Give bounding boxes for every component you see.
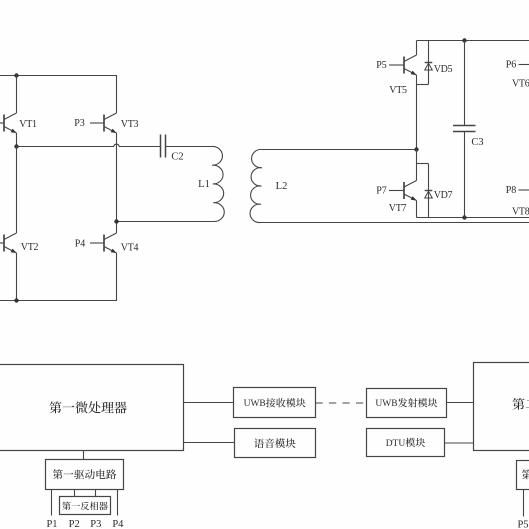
wire mid node to C2 with hop over right leg <box>17 144 161 146</box>
block second microprocessor <box>474 363 529 451</box>
wire DTU to second microprocessor <box>445 442 474 444</box>
svg-text:C2: C2 <box>171 151 183 162</box>
block UWB transmit module <box>367 389 447 418</box>
svg-text:VT8: VT8 <box>512 207 529 218</box>
inductor L1 primary coil <box>117 146 225 221</box>
block UWB receive module <box>234 388 316 418</box>
svg-text:P3: P3 <box>74 118 85 129</box>
wire UWB wireless link dashed <box>316 402 367 404</box>
wire top rail right bridge <box>417 40 529 42</box>
transistor VT4 <box>90 222 117 301</box>
wire driver pin P4 <box>117 490 119 516</box>
svg-text:C3: C3 <box>471 137 483 148</box>
wire bottom rail left bridge <box>0 300 117 302</box>
svg-text:P5: P5 <box>376 60 387 71</box>
svg-text:P7: P7 <box>376 186 387 197</box>
transistor VT1 <box>0 76 17 147</box>
junction top rail / VT1 collector <box>14 73 18 77</box>
svg-text:VT5: VT5 <box>389 85 407 96</box>
wire C2 to L1 <box>166 146 212 148</box>
svg-text:VT3: VT3 <box>121 119 139 130</box>
svg-text:UWB: UWB <box>244 399 266 409</box>
wire bottom rail right bridge <box>417 217 529 219</box>
diode VD5 <box>425 41 433 85</box>
wire P8 base lead <box>519 189 529 191</box>
diode VD7 <box>425 164 433 218</box>
wire UWB transmit to second microprocessor <box>447 402 474 404</box>
wire top rail left bridge <box>0 75 117 77</box>
junction mid node left leg <box>14 144 18 148</box>
svg-text:VD7: VD7 <box>434 190 453 201</box>
wire microprocessor to driver <box>83 451 85 460</box>
wire P6 base lead <box>519 64 529 66</box>
svg-text:P4: P4 <box>112 519 124 529</box>
transistor VT7 <box>389 150 429 218</box>
wire microprocessor to UWB receive <box>184 402 234 404</box>
svg-text:VT7: VT7 <box>389 203 407 214</box>
svg-text:VT1: VT1 <box>19 119 37 130</box>
svg-text:VT2: VT2 <box>21 242 39 253</box>
wire driver to inverter left <box>74 490 76 498</box>
transistor VT5 <box>389 41 429 85</box>
svg-text:P2: P2 <box>69 519 80 529</box>
svg-text:P4: P4 <box>75 239 86 250</box>
block DTU module <box>367 429 445 457</box>
junction L1 return / VT4 collector <box>114 219 118 223</box>
transistor VT3 <box>90 76 117 222</box>
svg-text:VT6: VT6 <box>512 79 529 90</box>
wire driver to inverter right <box>95 490 97 498</box>
junction mid node right bridge <box>414 147 418 151</box>
svg-text:L2: L2 <box>276 181 288 192</box>
svg-text:P1: P1 <box>46 519 57 529</box>
wire microprocessor to voice module <box>184 442 235 444</box>
svg-text:UWB: UWB <box>375 399 397 409</box>
wire VT5 emitter to mid node <box>416 85 418 150</box>
svg-text:P3: P3 <box>90 519 101 529</box>
inductor L2 secondary coil <box>250 149 529 222</box>
block first drive circuit <box>46 460 124 490</box>
block voice module <box>235 429 316 458</box>
wire second driver pin P5 <box>523 490 525 517</box>
svg-text:P5: P5 <box>517 519 528 529</box>
svg-text:P6: P6 <box>506 60 517 71</box>
junction bottom rail / VT2 emitter <box>14 298 18 302</box>
wire driver pin P1 <box>51 490 53 516</box>
svg-text:DTU: DTU <box>386 439 406 449</box>
capacitor C2 <box>161 135 166 158</box>
svg-text:VT4: VT4 <box>121 243 139 254</box>
block second drive circuit partial <box>517 461 529 490</box>
svg-text:VD5: VD5 <box>434 64 453 75</box>
svg-text:L1: L1 <box>198 179 210 190</box>
block first microprocessor <box>0 365 184 451</box>
block first inverter <box>60 497 111 515</box>
svg-text:P8: P8 <box>506 185 517 196</box>
transistor VT2 <box>0 147 17 301</box>
capacitor C3 <box>453 41 476 218</box>
junction bottom rail / C3 <box>462 215 466 219</box>
junction top rail / C3 <box>462 38 466 42</box>
